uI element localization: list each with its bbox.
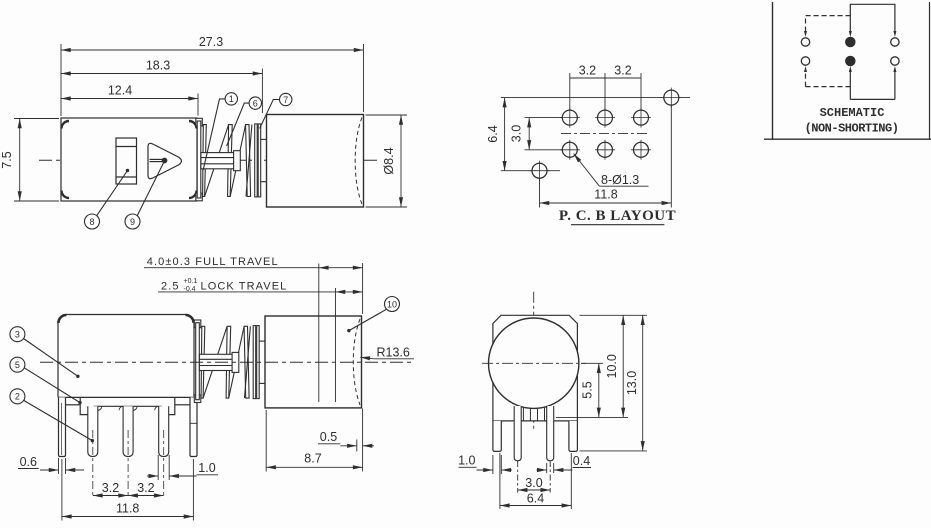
- callout 10: [347, 297, 399, 333]
- dim 5.5: [598, 363, 600, 417]
- triangle bar: [150, 158, 164, 160]
- svg-text:2: 2: [15, 392, 20, 402]
- knob face arc (dashed): [355, 118, 362, 205]
- centerline top view: [39, 159, 379, 161]
- front centerline vertical: [533, 292, 535, 429]
- svg-text:+0.1: +0.1: [184, 278, 198, 285]
- hidden pin stubs: [523, 408, 544, 421]
- svg-text:13.0: 13.0: [625, 371, 639, 395]
- dim 3.2 / 3.2 top: [570, 77, 641, 79]
- body corner mark BL: [62, 191, 70, 199]
- ext lines right: [580, 314, 648, 316]
- svg-text:3.2: 3.2: [137, 481, 154, 495]
- hole r1c1: [562, 110, 577, 125]
- front dims: [459, 315, 648, 509]
- schematic contacts: [801, 37, 899, 65]
- pcb holes: [532, 90, 679, 178]
- svg-text:6.4: 6.4: [486, 125, 500, 142]
- svg-text:P. C. B LAYOUT: P. C. B LAYOUT: [559, 208, 676, 224]
- inner slider block (part 8): [116, 138, 137, 184]
- svg-text:4.0±0.3 FULL TRAVEL: 4.0±0.3 FULL TRAVEL: [147, 256, 279, 268]
- front body: [493, 315, 578, 421]
- contact common bottom: [846, 56, 855, 65]
- dim full travel: [144, 267, 363, 269]
- contact open bl: [801, 57, 809, 65]
- dim 3.0: [528, 118, 530, 150]
- body bottom edge: [58, 396, 194, 398]
- svg-text:-0.4: -0.4: [184, 286, 196, 293]
- dim 27.3: [61, 49, 364, 51]
- body corner mark TR: [189, 121, 197, 129]
- hole r2c1: [562, 142, 577, 157]
- callout 1: [225, 93, 237, 105]
- front leg left: [493, 421, 501, 452]
- svg-text:3.2: 3.2: [614, 64, 631, 78]
- contact open tl: [801, 38, 809, 46]
- callout 7: [280, 93, 292, 105]
- svg-text:5.5: 5.5: [581, 381, 595, 398]
- base tooth right: [162, 397, 175, 414]
- dim 12.4: [61, 98, 198, 100]
- hole r1c3: [634, 110, 649, 125]
- svg-text:0.5: 0.5: [320, 430, 337, 444]
- callout 8: [85, 214, 100, 229]
- knob circle front: [489, 318, 579, 408]
- svg-text:18.3: 18.3: [146, 59, 170, 73]
- hole r2c2: [598, 142, 613, 157]
- hole corner tr: [664, 90, 679, 105]
- svg-text:1: 1: [229, 94, 234, 104]
- body corner mark TL: [62, 121, 70, 129]
- svg-text:3.2: 3.2: [102, 481, 119, 495]
- callout 9: [125, 214, 140, 229]
- svg-text:9: 9: [130, 217, 135, 227]
- svg-text:0.4: 0.4: [573, 454, 590, 468]
- front leg right: [569, 421, 578, 452]
- svg-text:8: 8: [89, 217, 94, 227]
- body bottom view: [58, 315, 194, 398]
- construction line bottom left: [501, 170, 560, 172]
- dim 3.2 3.2 bottom: [93, 495, 164, 497]
- svg-text:3.0: 3.0: [510, 125, 524, 142]
- dashed link bottom left: [806, 72, 851, 87]
- svg-text:3.2: 3.2: [579, 64, 596, 78]
- callout 6: [249, 97, 261, 109]
- callouts top view: [85, 93, 292, 229]
- dashed link top left: [806, 16, 851, 32]
- svg-text:10.0: 10.0: [605, 354, 619, 378]
- svg-text:Ø8.4: Ø8.4: [382, 147, 396, 174]
- left mounting leg: [59, 397, 66, 456]
- spring assembly top view: [196, 118, 267, 201]
- hole r1c2: [598, 110, 613, 125]
- contact arrows: [804, 31, 896, 72]
- dim 11.8 bottom: [62, 459, 194, 521]
- callout 3: [10, 327, 80, 378]
- front pin B: [547, 406, 554, 461]
- svg-text:0.6: 0.6: [20, 455, 37, 469]
- solid link bottom: [850, 72, 895, 99]
- dim 7.5: [19, 119, 21, 202]
- schematic frame left: [772, 2, 774, 139]
- svg-text:7.5: 7.5: [0, 151, 14, 168]
- svg-text:8-Ø1.3: 8-Ø1.3: [601, 173, 639, 187]
- callout 2: [10, 389, 94, 443]
- svg-text:6: 6: [253, 98, 258, 108]
- thick corner arc TL: [58, 315, 66, 323]
- body corner mark BR: [189, 191, 197, 199]
- dim 13.0: [642, 315, 644, 451]
- svg-text:27.3: 27.3: [199, 35, 223, 49]
- right mounting leg: [190, 397, 197, 456]
- leader 8-dia1.3: [574, 154, 649, 187]
- svg-text:7: 7: [283, 95, 288, 105]
- pin centerlines: [93, 430, 164, 497]
- svg-text:1.0: 1.0: [458, 454, 475, 468]
- travel indicator lines: [319, 263, 363, 402]
- centerline rows: [561, 133, 650, 135]
- dim 1.0 bottom view: [147, 455, 218, 480]
- svg-text:2.5: 2.5: [161, 280, 180, 292]
- callout 5: [10, 357, 82, 404]
- pin fillets: [98, 406, 159, 410]
- svg-text:LOCK TRAVEL: LOCK TRAVEL: [201, 280, 288, 292]
- dim 0.4 front: [537, 469, 547, 471]
- svg-text:3: 3: [15, 330, 20, 340]
- svg-text:11.8: 11.8: [116, 502, 139, 516]
- dim 10.0: [622, 315, 624, 417]
- svg-text:5: 5: [15, 360, 20, 370]
- centerline bottom view: [40, 361, 415, 363]
- dim 8.7: [266, 409, 362, 472]
- dim 3.0 front: [517, 461, 519, 493]
- hole r2c3: [634, 142, 649, 157]
- knob bottom view: [265, 316, 362, 408]
- dimensions of top view: [14, 44, 407, 207]
- contact open tr: [891, 38, 899, 46]
- dim dia 8.4: [400, 115, 402, 207]
- svg-text:(NON-SHORTING): (NON-SHORTING): [805, 122, 899, 136]
- base ledge right: [175, 404, 190, 406]
- hole corner bl: [532, 163, 547, 178]
- dim 0.6: [18, 458, 84, 474]
- front centerline horizontal: [482, 362, 586, 364]
- dim R13.6: [360, 357, 414, 359]
- base platform: [94, 405, 162, 407]
- schematic frame bottom: [764, 138, 931, 140]
- dim 0.5: [318, 440, 374, 452]
- hole centermarks: [530, 88, 682, 181]
- svg-text:12.4: 12.4: [108, 84, 132, 98]
- front pin A: [514, 406, 521, 461]
- svg-text:SCHEMATIC: SCHEMATIC: [820, 106, 885, 120]
- triangle dot: [162, 158, 167, 163]
- svg-text:3.0: 3.0: [525, 476, 542, 490]
- svg-text:R13.6: R13.6: [377, 345, 410, 359]
- pin 3: [159, 406, 169, 456]
- pin 2: [123, 406, 133, 456]
- contact open br: [891, 57, 899, 65]
- pin 1: [88, 406, 98, 456]
- switch body: [61, 118, 197, 201]
- pointer triangle (part 9): [148, 143, 181, 178]
- dim 11.8 pcb: [540, 202, 672, 204]
- base ledge left: [66, 404, 81, 406]
- dim 6.4 front: [499, 453, 501, 509]
- svg-text:11.8: 11.8: [594, 188, 617, 202]
- solid link top (common to right contact): [850, 4, 895, 31]
- svg-text:1.0: 1.0: [198, 461, 215, 475]
- dim 1.0 front: [459, 466, 477, 468]
- terminal pins: [88, 406, 169, 456]
- knob cylinder top view: [267, 115, 364, 208]
- schematic frame right: [929, 2, 931, 139]
- svg-text:10: 10: [387, 299, 397, 309]
- contact common top: [846, 37, 855, 46]
- base tooth left: [80, 397, 94, 414]
- construction line top right: [501, 97, 690, 99]
- dim 18.3: [61, 73, 262, 75]
- spring assembly bottom view: [194, 320, 265, 403]
- dim 6.4: [504, 98, 506, 171]
- thick corner arc TR: [186, 315, 194, 323]
- svg-text:8.7: 8.7: [304, 452, 321, 466]
- svg-text:6.4: 6.4: [527, 492, 544, 506]
